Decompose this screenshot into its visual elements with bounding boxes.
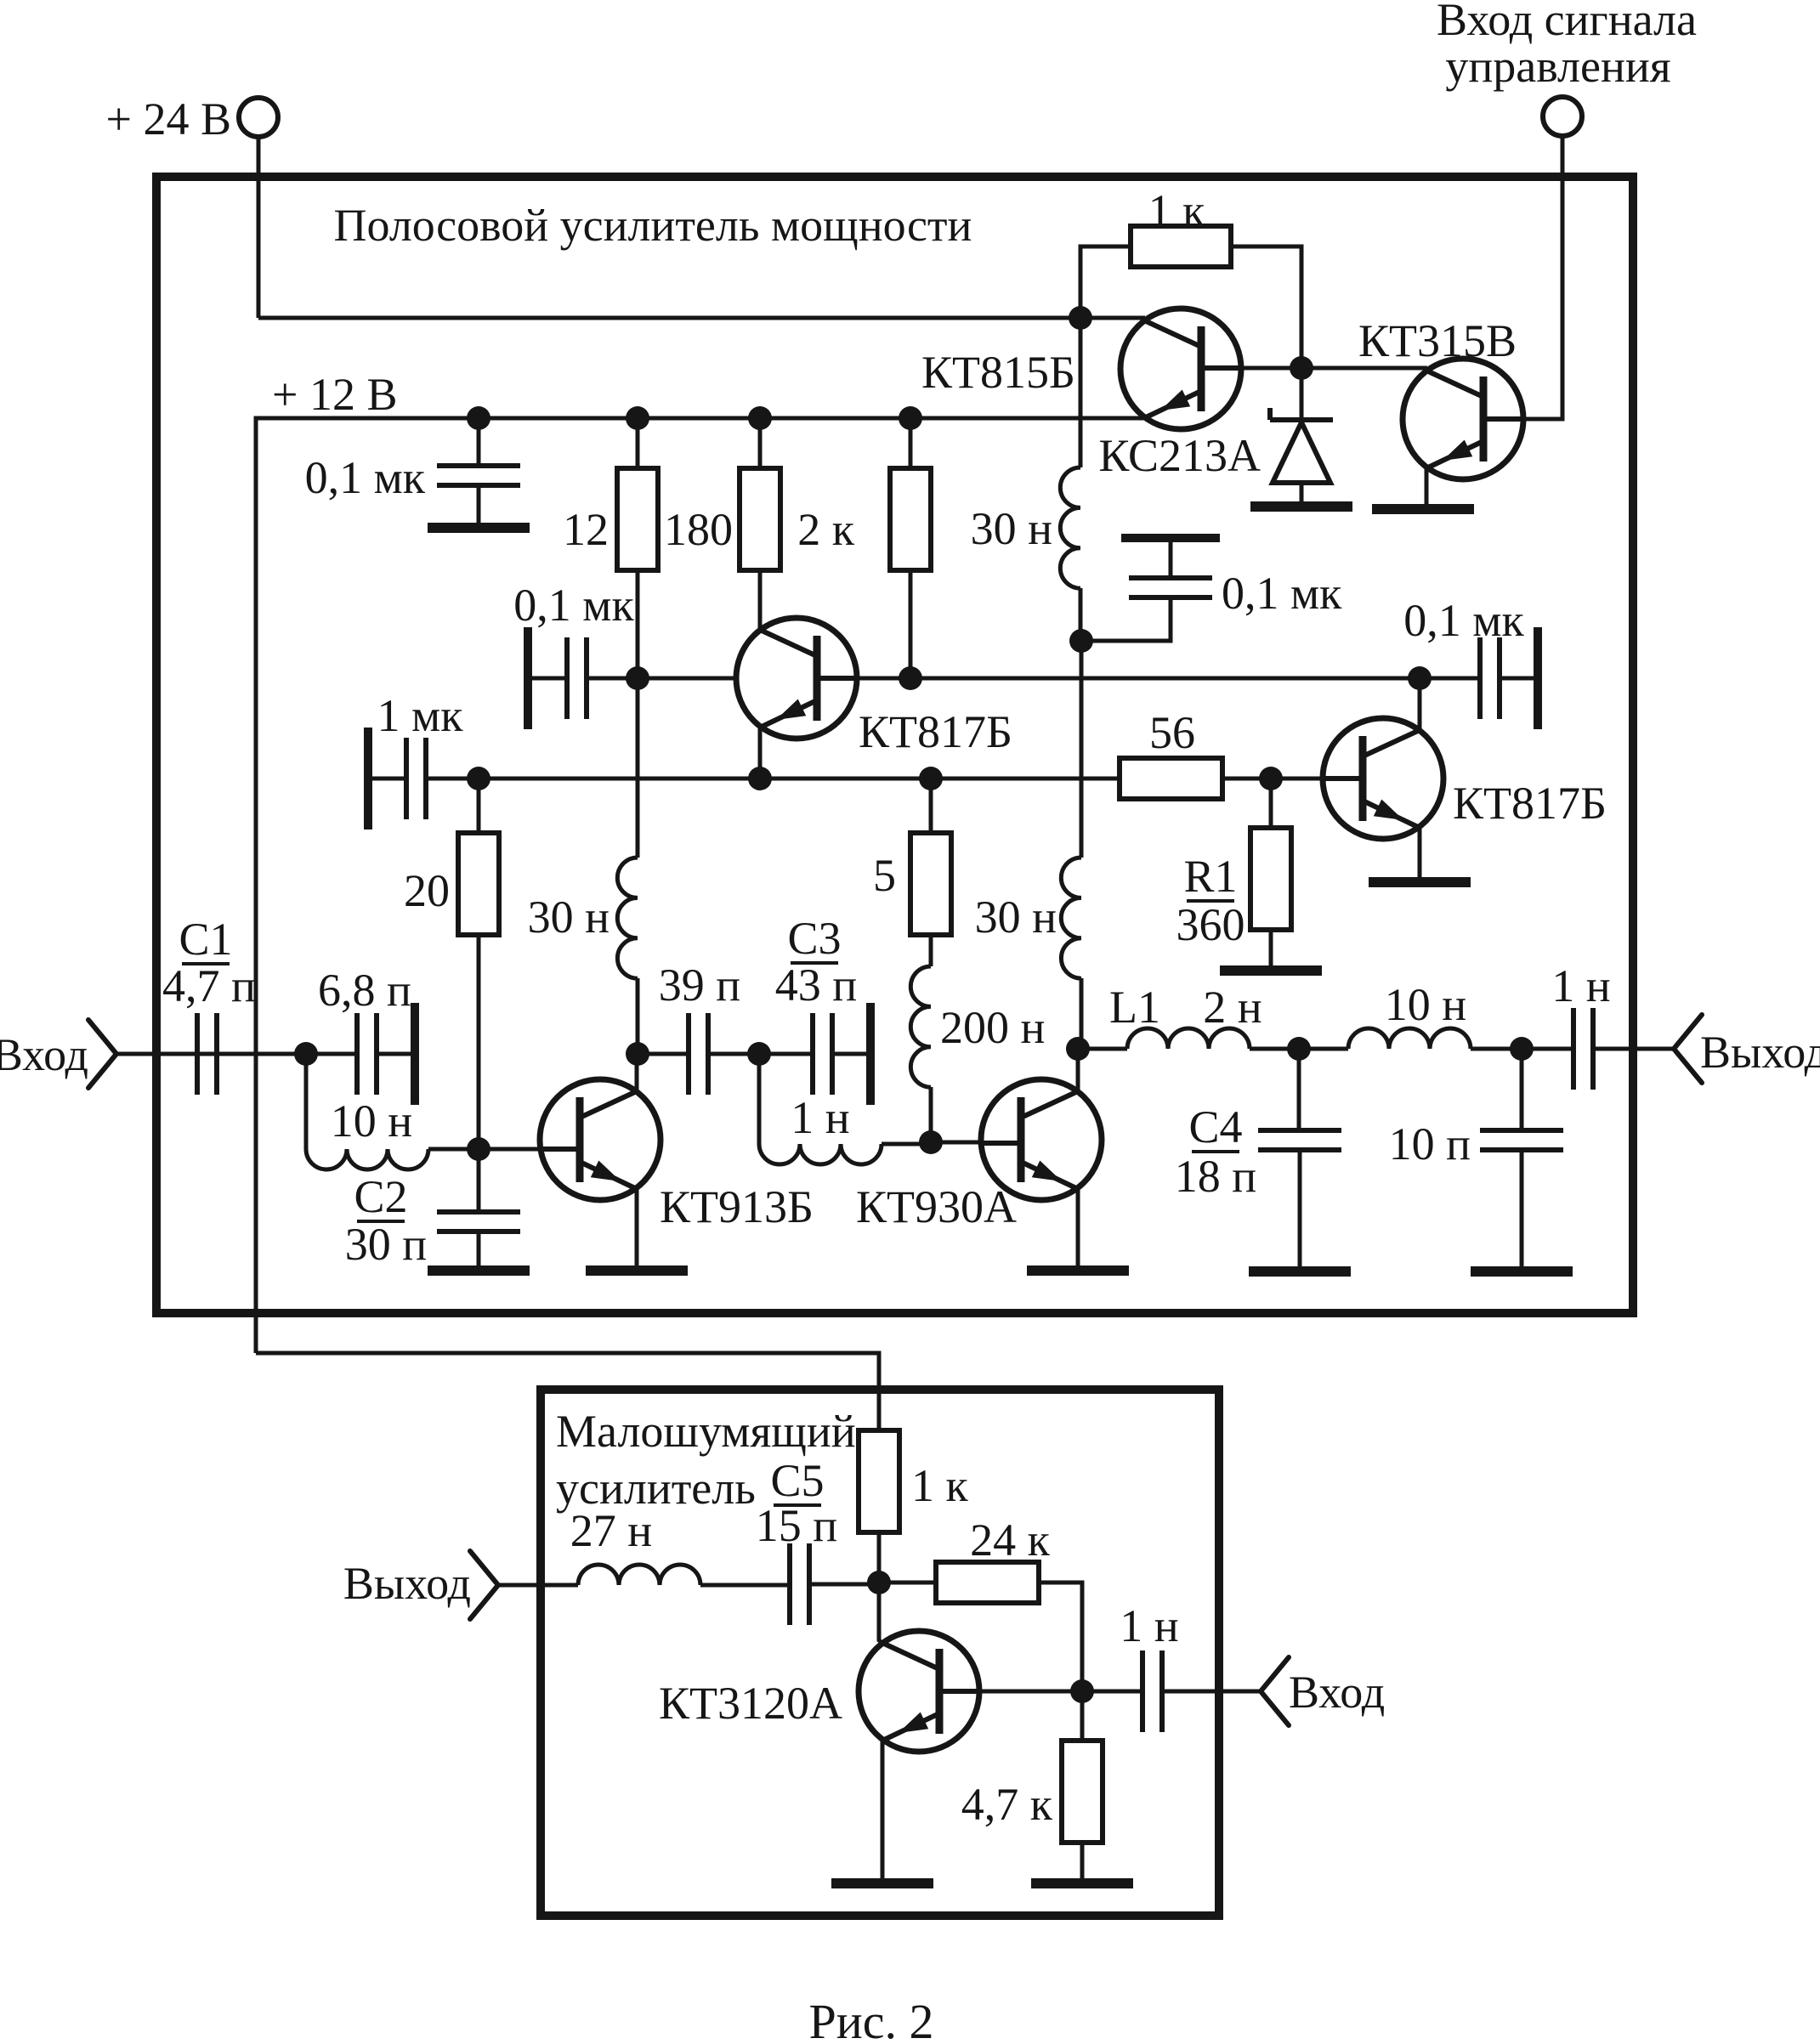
- wire control input down: [1488, 136, 1562, 419]
- node R5 / bias: [919, 767, 943, 790]
- resistor 4,7 к: [1062, 1741, 1103, 1843]
- svg-text:0,1 мк: 0,1 мк: [305, 452, 426, 503]
- node KT913B collector / 39p: [626, 1042, 649, 1066]
- label 1 мк: [377, 690, 464, 741]
- label 180: [664, 504, 733, 555]
- svg-text:КТ913Б: КТ913Б: [660, 1181, 814, 1232]
- wire KT3120A emitter down: [881, 1741, 885, 1879]
- terminal arrow: main output: [1674, 1015, 1702, 1083]
- label 6,8 п: [318, 965, 411, 1016]
- capacitor C4 18 п: [1258, 1130, 1341, 1150]
- label КТ913Б: [660, 1181, 814, 1232]
- wire KT913B base lead: [479, 1147, 562, 1152]
- label L1: [1109, 982, 1160, 1033]
- label КТ315В: [1358, 315, 1517, 366]
- wire 30n choke top: [1079, 318, 1083, 467]
- svg-text:КТ3120А: КТ3120А: [659, 1678, 842, 1729]
- svg-text:12: 12: [563, 504, 609, 555]
- svg-text:30 н: 30 н: [975, 892, 1057, 943]
- resistor R1 360: [1250, 828, 1291, 930]
- node 56 / R1 / KT817B-right base: [1259, 767, 1283, 790]
- resistor 5: [910, 833, 951, 935]
- wire 30n choke bottom: [1079, 588, 1083, 641]
- ground (10 п): [1471, 1266, 1573, 1277]
- label 10 н (input): [331, 1096, 412, 1147]
- svg-text:КС213А: КС213А: [1098, 430, 1261, 481]
- svg-text:5: 5: [873, 850, 896, 901]
- wire 4.7k top lead: [1080, 1691, 1085, 1741]
- node C5 / 1k / 24k: [867, 1571, 891, 1594]
- svg-text:18 п: 18 п: [1175, 1151, 1256, 1202]
- label КТ930А: [856, 1181, 1017, 1232]
- wire KT817B-right emitter down: [1418, 828, 1422, 878]
- svg-text:КТ930А: КТ930А: [856, 1181, 1017, 1232]
- label 43 п: [775, 960, 857, 1011]
- wire 0.1uF cap lead: [477, 418, 481, 524]
- inductor 30 н (upper choke): [1060, 467, 1080, 588]
- svg-text:4,7 п: 4,7 п: [162, 960, 256, 1011]
- wire L1 to C4 node: [1250, 1047, 1348, 1051]
- resistor 1 к (top): [1131, 226, 1231, 267]
- svg-text:КТ817Б: КТ817Б: [859, 706, 1012, 757]
- block label: Малошумящий усилитель (line 1): [556, 1406, 856, 1457]
- wire output through border: [1593, 1047, 1674, 1051]
- svg-text:КТ315В: КТ315В: [1358, 315, 1517, 366]
- wire 1k right lead: [1231, 246, 1301, 368]
- label 12: [563, 504, 609, 555]
- wire KT930A emitter down: [1076, 1189, 1080, 1266]
- node KT930A base: [919, 1130, 943, 1154]
- wire 4.7k bottom lead: [1080, 1843, 1085, 1879]
- svg-text:Вход: Вход: [0, 1029, 88, 1080]
- wire node down to 1n coil: [757, 1054, 762, 1144]
- ground (R1): [1220, 965, 1322, 976]
- node +12 rail / 0.1uF: [467, 406, 490, 430]
- svg-text:Вход сигнала: Вход сигнала: [1437, 0, 1697, 45]
- node choke / feedthrough cap: [1069, 629, 1093, 653]
- svg-text:КТ815Б: КТ815Б: [921, 347, 1075, 398]
- label КТ817Б (left): [859, 706, 1012, 757]
- wire KT817B-right collector up: [1418, 678, 1422, 730]
- capacitor 0,1 мк (series right): [1480, 627, 1538, 729]
- wire node to 0.1uF right: [1420, 677, 1480, 681]
- capacitor C1 4,7 п: [197, 1013, 217, 1095]
- wire R12 top lead: [636, 418, 640, 468]
- ground (C4): [1249, 1266, 1351, 1277]
- ground (KT913B emitter): [586, 1265, 688, 1276]
- wire +24V terminal down: [257, 137, 261, 318]
- label C5: [770, 1455, 824, 1506]
- wire KT3120A base lead: [939, 1690, 1142, 1694]
- svg-text:0,1 мк: 0,1 мк: [513, 580, 634, 631]
- ground (zener): [1250, 501, 1352, 512]
- node input / 6.8p / 10n: [294, 1042, 318, 1066]
- inductor 10 н (input): [306, 1149, 428, 1169]
- svg-text:0,1 мк: 0,1 мк: [1222, 568, 1342, 619]
- svg-text:30 п: 30 п: [345, 1219, 427, 1270]
- capacitor 1 н (LNA input): [1142, 1650, 1162, 1732]
- label C2: [354, 1171, 407, 1222]
- label Вход (LNA): [1289, 1667, 1385, 1718]
- wire 10p top lead: [1520, 1049, 1524, 1130]
- wire 200n to base node: [929, 1087, 933, 1142]
- wire 1k left lead: [1080, 246, 1131, 318]
- svg-text:6,8 п: 6,8 п: [318, 965, 411, 1016]
- svg-text:43 п: 43 п: [775, 960, 857, 1011]
- node +12 rail / R 180: [748, 406, 772, 430]
- label C1: [179, 914, 232, 965]
- transistor КТ930А: [979, 1079, 1102, 1200]
- resistor 1 к (LNA): [859, 1430, 899, 1532]
- wire input node to 6.8p: [306, 1052, 357, 1056]
- svg-text:1 н: 1 н: [791, 1092, 849, 1143]
- label КТ815Б: [921, 347, 1075, 398]
- wire R5 top lead: [929, 779, 933, 833]
- wire choke vertical to KT930A collector: [1080, 641, 1084, 858]
- wire 24k left lead: [879, 1581, 936, 1585]
- svg-text:С3: С3: [787, 913, 841, 964]
- label R1: [1183, 851, 1237, 902]
- wire R180 bottom lead (to KT817B-left collector): [758, 570, 763, 631]
- wire KT913B emitter down: [635, 1189, 639, 1266]
- ground (KT817B-right emitter): [1369, 877, 1471, 887]
- block label: Малошумящий усилитель (line 2): [556, 1463, 756, 1514]
- label Выход (LNA): [343, 1558, 471, 1609]
- svg-text:Малошумящий: Малошумящий: [556, 1406, 856, 1457]
- inductor 1 н (interstage): [759, 1144, 882, 1164]
- svg-text:+ 12 В: + 12 В: [272, 369, 397, 420]
- label 27 н: [570, 1505, 652, 1556]
- node zener/base junction: [1290, 356, 1313, 380]
- label 5: [873, 850, 896, 901]
- wire choke to output node: [1080, 978, 1084, 1049]
- label + 24 В: [106, 93, 231, 144]
- svg-text:27 н: 27 н: [570, 1505, 652, 1556]
- svg-text:0,1 мк: 0,1 мк: [1403, 595, 1524, 646]
- transistor КТ315В: [1403, 359, 1525, 479]
- low-noise amplifier block box: [541, 1390, 1219, 1916]
- svg-text:180: 180: [664, 504, 733, 555]
- label КТ817Б (right): [1453, 778, 1607, 829]
- label 360: [1176, 899, 1245, 950]
- capacitor 39 п: [689, 1013, 708, 1095]
- resistor 24 к: [936, 1562, 1039, 1603]
- node +12 rail / R 12: [626, 406, 649, 430]
- label 2 к: [797, 504, 855, 555]
- transistor KT815Б: [1120, 309, 1243, 429]
- label 56: [1149, 707, 1195, 758]
- diode (zener) КС213А: [1270, 368, 1333, 502]
- wire KT817B-left emitter down: [758, 728, 763, 779]
- svg-text:Вход: Вход: [1289, 1667, 1385, 1718]
- svg-text:10 н: 10 н: [331, 1096, 412, 1147]
- label Вход сигнала (line 1): [1437, 0, 1697, 45]
- ground (KT315V emitter): [1372, 504, 1474, 514]
- transistor КТ817Б (right): [1321, 718, 1443, 839]
- label 1 н (output): [1551, 960, 1610, 1011]
- svg-text:С4: С4: [1188, 1101, 1242, 1152]
- wire C4 top lead: [1297, 1049, 1301, 1130]
- ground (KT3120A emitter): [831, 1878, 933, 1888]
- capacitor 1 н (output): [1573, 1008, 1593, 1090]
- wire KT930A collector up: [1076, 1049, 1080, 1091]
- node 0.1uF-right / KT817B-right collector: [1408, 666, 1432, 690]
- label 20: [404, 865, 450, 916]
- label 39 п: [659, 960, 740, 1011]
- svg-text:1 н: 1 н: [1551, 960, 1610, 1011]
- label 1 к (top): [1148, 185, 1206, 236]
- node +24V/choke junction: [1069, 306, 1092, 330]
- wire KT930A base lead: [931, 1141, 1003, 1145]
- wire C2 top lead: [477, 1149, 481, 1212]
- wire input node down to 10n coil: [304, 1054, 309, 1149]
- wire choke top to 0.1uF node: [636, 678, 640, 858]
- wire LNA input lead: [1162, 1690, 1261, 1694]
- capacitor 10 п: [1480, 1130, 1563, 1150]
- caption Рис. 2: [808, 1994, 933, 2044]
- node 39p / 43p / 1n coil: [747, 1042, 771, 1066]
- label 30 п: [345, 1219, 427, 1270]
- node base / 4.7k / 1n: [1070, 1679, 1094, 1703]
- wire C4 bottom lead: [1298, 1150, 1302, 1266]
- label Вход (main input): [0, 1029, 88, 1080]
- label C3: [787, 913, 841, 964]
- node KT817B-left base / 2k: [899, 666, 922, 690]
- node C2 / KT913B base: [467, 1137, 490, 1161]
- wire 0.1uF to node: [587, 677, 638, 681]
- wire R2k top lead: [909, 418, 913, 468]
- svg-text:56: 56: [1149, 707, 1195, 758]
- resistor 180: [740, 468, 780, 570]
- wire node to 43p: [759, 1052, 813, 1056]
- label КС213А: [1098, 430, 1261, 481]
- wire +12 feed to LNA: [256, 1353, 879, 1430]
- terminal arrow: LNA output: [470, 1551, 498, 1619]
- svg-text:20: 20: [404, 865, 450, 916]
- wire 10n to output cap node: [1471, 1047, 1573, 1051]
- capacitor C3 43 п: [813, 1003, 870, 1105]
- svg-text:+ 24 В: + 24 В: [106, 93, 231, 144]
- label 1 н (LNA input): [1120, 1600, 1178, 1651]
- capacitor 1 мк: [368, 728, 426, 829]
- power amplifier block box: [156, 177, 1633, 1313]
- wire collector node to 39p: [638, 1052, 689, 1056]
- svg-text:30 н: 30 н: [528, 892, 610, 943]
- svg-text:1 к: 1 к: [1148, 185, 1206, 236]
- svg-text:1 к: 1 к: [911, 1460, 969, 1511]
- wire C2 bottom lead: [477, 1231, 481, 1266]
- label Выход (main output): [1700, 1027, 1820, 1078]
- label 0,1 мк (rail cap): [305, 452, 426, 503]
- resistor 56: [1120, 758, 1222, 799]
- ground (KT930A emitter): [1027, 1265, 1129, 1276]
- svg-text:R1: R1: [1183, 851, 1237, 902]
- node +12 rail / R 2k: [899, 406, 922, 430]
- wire KT3120A collector from node: [879, 1583, 882, 1643]
- ground (0,1 мк rail cap): [428, 523, 530, 533]
- wire 27n to C5: [700, 1583, 790, 1588]
- inductor L1 2 н: [1127, 1028, 1250, 1049]
- wire KT913B collector up: [635, 1054, 639, 1091]
- wire 10p bottom lead: [1520, 1150, 1524, 1266]
- wire KT315V emitter to ground: [1425, 468, 1429, 505]
- wire 39p to node: [708, 1052, 759, 1056]
- label 4,7 п: [162, 960, 256, 1011]
- capacitor 0,1 мк (+12 rail): [437, 466, 520, 485]
- ground (C2): [428, 1265, 530, 1276]
- svg-text:30 н: 30 н: [971, 503, 1052, 554]
- wire 24k right lead: [1039, 1583, 1082, 1691]
- block label: Полосовой усилитель мощности: [334, 200, 972, 251]
- label 30 н (KT913B choke): [528, 892, 610, 943]
- inductor 10 н (output): [1348, 1028, 1471, 1049]
- svg-text:24 к: 24 к: [970, 1515, 1051, 1566]
- terminal control-input circle: [1543, 97, 1582, 136]
- svg-text:L1: L1: [1109, 982, 1160, 1033]
- capacitor 0,1 мк (feedthrough): [1121, 538, 1220, 597]
- svg-text:2 к: 2 к: [797, 504, 855, 555]
- svg-text:2 н: 2 н: [1203, 982, 1262, 1033]
- wire input line: [116, 1052, 357, 1056]
- label 10 п: [1389, 1118, 1471, 1169]
- terminal arrow: LNA input: [1261, 1657, 1289, 1725]
- capacitor 0,1 мк (series left): [528, 627, 587, 729]
- svg-text:управления: управления: [1445, 41, 1670, 92]
- svg-text:С1: С1: [179, 914, 232, 965]
- terminal +24 V circle: [239, 98, 278, 137]
- svg-text:Выход: Выход: [1700, 1027, 1820, 1078]
- transistor КТ913Б: [538, 1079, 661, 1200]
- node R12 / 0.1uF / choke line: [626, 666, 649, 690]
- wire bias line: [426, 777, 1120, 781]
- svg-text:Рис. 2: Рис. 2: [808, 1994, 933, 2044]
- wire +12V rail: [256, 418, 1145, 1353]
- node 10p / 1n output: [1510, 1037, 1534, 1061]
- svg-text:С5: С5: [770, 1455, 824, 1506]
- wire base line y=798: [638, 677, 1420, 681]
- label 18 п: [1175, 1151, 1256, 1202]
- capacitor 6,8 п: [357, 1003, 415, 1105]
- wire R180 top lead: [758, 418, 763, 468]
- resistor 2 к: [890, 468, 931, 570]
- wire R12 bottom lead: [636, 570, 640, 678]
- resistor 20: [458, 833, 499, 935]
- label 30 н (lower choke): [975, 892, 1057, 943]
- inductor 27 н: [578, 1565, 700, 1585]
- wire R5 to 200n coil: [929, 935, 933, 966]
- label 1 н (interstage): [791, 1092, 849, 1143]
- wire collector node to 30n choke: [636, 978, 640, 1054]
- wire +24V rail horizontal: [258, 316, 1080, 320]
- wire R20 top lead: [477, 779, 481, 833]
- resistor 12: [617, 468, 658, 570]
- transistor КТ3120А: [859, 1631, 981, 1752]
- wire KT815B collector: [1080, 316, 1145, 320]
- node 1uF / R20: [467, 767, 490, 790]
- label + 12 В: [272, 369, 397, 420]
- label 0,1 мк (series left): [513, 580, 634, 631]
- svg-text:Полосовой усилитель мощности: Полосовой усилитель мощности: [334, 200, 972, 251]
- wire R2k bottom lead: [909, 570, 913, 678]
- node output line / choke: [1066, 1037, 1090, 1061]
- svg-text:39 п: 39 п: [659, 960, 740, 1011]
- label 2 н: [1203, 982, 1262, 1033]
- inductor 30 н (KT913B collector choke): [617, 858, 638, 978]
- label 0,1 мк (feedthrough): [1222, 568, 1342, 619]
- svg-text:Выход: Выход: [343, 1558, 471, 1609]
- wire 56 right lead: [1222, 777, 1363, 781]
- label управления (line 2): [1445, 41, 1670, 92]
- label C4: [1188, 1101, 1242, 1152]
- capacitor C2 30 п: [437, 1212, 520, 1231]
- terminal arrow: main input: [88, 1020, 116, 1088]
- inductor 200 н: [910, 966, 931, 1087]
- label КТ3120А: [659, 1678, 842, 1729]
- label 0,1 мк (series right): [1403, 595, 1524, 646]
- node C4 / L1 / 10n: [1287, 1037, 1311, 1061]
- wire zener node to KT315V collector: [1301, 366, 1427, 371]
- svg-text:С2: С2: [354, 1171, 407, 1222]
- label 30 н (upper choke): [971, 503, 1052, 554]
- label 24 к: [970, 1515, 1051, 1566]
- wire LNA output line: [498, 1583, 578, 1588]
- label 10 н (output): [1385, 979, 1466, 1030]
- svg-text:1 мк: 1 мк: [377, 690, 464, 741]
- wire 1n coil to base node: [882, 1142, 931, 1147]
- wire feedthrough cap leads: [1081, 542, 1171, 641]
- wire 10n to C2 node: [428, 1147, 479, 1152]
- svg-text:200 н: 200 н: [940, 1002, 1045, 1053]
- label 1 к (LNA): [911, 1460, 969, 1511]
- svg-text:КТ817Б: КТ817Б: [1453, 778, 1607, 829]
- node KT817B-left emitter / bias: [748, 767, 772, 790]
- wire 1k LNA bottom lead: [877, 1532, 882, 1583]
- wire C5 to node: [809, 1583, 879, 1587]
- label 15 п: [756, 1500, 837, 1551]
- wire R20 bottom lead: [477, 935, 481, 1149]
- transistor КТ817Б (left): [736, 618, 859, 739]
- wire R1 bottom lead: [1269, 930, 1273, 966]
- wire output node to L1: [1078, 1047, 1127, 1051]
- svg-text:4,7 к: 4,7 к: [961, 1779, 1053, 1830]
- label 4,7 к: [961, 1779, 1053, 1830]
- wire R1 top lead: [1269, 779, 1273, 828]
- svg-text:1 н: 1 н: [1120, 1600, 1178, 1651]
- svg-text:10 н: 10 н: [1385, 979, 1466, 1030]
- inductor 30 н (lower, collector choke): [1061, 858, 1081, 978]
- wire KT815B base lead: [1222, 366, 1301, 371]
- ground (4,7 к): [1031, 1878, 1133, 1888]
- svg-text:10 п: 10 п: [1389, 1118, 1471, 1169]
- capacitor C5 15 п: [790, 1543, 809, 1625]
- label 200 н: [940, 1002, 1045, 1053]
- svg-text:360: 360: [1176, 899, 1245, 950]
- svg-text:15 п: 15 п: [756, 1500, 837, 1551]
